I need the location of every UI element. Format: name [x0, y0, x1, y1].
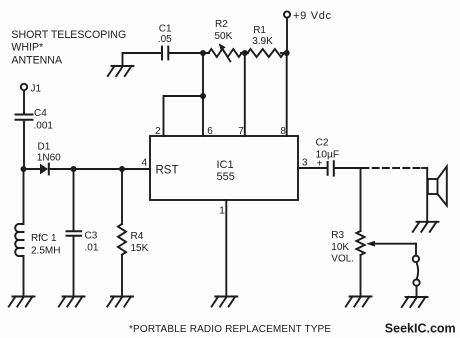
svg-text:.001: .001: [34, 121, 54, 132]
wire R1 to node F: [281, 52, 287, 54]
diode D1: [37, 141, 61, 174]
wire speaker drop: [426, 168, 428, 222]
wire C1 to node D: [169, 52, 210, 54]
svg-text:2: 2: [155, 126, 161, 137]
svg-text:R4: R4: [131, 231, 144, 242]
speaker SPK: [428, 166, 447, 205]
svg-text:7: 7: [238, 126, 244, 137]
potentiometer R3: [331, 230, 364, 265]
capacitor C4: [16, 108, 54, 132]
ground under C3: [59, 297, 85, 307]
switch S1: [413, 256, 420, 286]
wire node A to D1: [24, 168, 41, 170]
node D junction: [200, 50, 206, 56]
wire R2 to node E: [241, 52, 248, 54]
node F junction: [284, 50, 290, 56]
svg-text:2.5MH: 2.5MH: [31, 245, 60, 256]
node G junction: [200, 93, 206, 99]
svg-text:15K: 15K: [131, 243, 149, 254]
ground under pin 1: [212, 297, 238, 307]
wire J1 to C4: [23, 90, 25, 114]
svg-text:IC1: IC1: [217, 159, 234, 171]
node A junction: [21, 166, 27, 172]
wire C3 to ground: [73, 236, 75, 297]
svg-text:3.9K: 3.9K: [252, 36, 273, 47]
svg-text:RfC 1: RfC 1: [31, 233, 57, 244]
op-amp U1 IC1 555 box: [150, 136, 298, 200]
wire R3 riser: [360, 168, 362, 231]
wire C2 to R3 top: [334, 167, 361, 169]
svg-text:3: 3: [302, 157, 308, 168]
svg-text:D1: D1: [38, 141, 51, 152]
wire RFC1 to ground: [23, 256, 25, 297]
svg-text:C3: C3: [85, 230, 98, 241]
svg-text:C4: C4: [34, 108, 47, 119]
svg-text:VOL.: VOL.: [331, 254, 354, 265]
ground under R3: [346, 297, 372, 307]
svg-text:C1: C1: [159, 23, 172, 34]
svg-text:.01: .01: [85, 242, 99, 253]
label antenna text: [11, 29, 126, 66]
svg-text:C2: C2: [316, 137, 329, 148]
ground under switch: [402, 297, 428, 307]
wire C4 to node A: [23, 120, 25, 169]
wire R3 to ground: [360, 255, 362, 297]
wire pin 7 riser: [244, 53, 246, 136]
resistor R4: [118, 224, 149, 255]
terminal +9 Vdc: [284, 10, 332, 53]
wire pin 3 to C2: [298, 167, 327, 169]
svg-text:R2: R2: [215, 19, 228, 30]
ground near C1: [108, 66, 134, 76]
svg-text:SeekIC.com: SeekIC.com: [385, 321, 456, 335]
wire pin 8 riser: [286, 53, 288, 136]
wire switch to ground: [416, 286, 418, 297]
inductor RFC1: [15, 169, 60, 256]
resistor R1: [248, 25, 285, 57]
svg-text:SHORT TELESCOPING: SHORT TELESCOPING: [11, 29, 126, 41]
node C junction: [119, 166, 125, 172]
ground under RFC1: [9, 297, 35, 307]
svg-text:RST: RST: [156, 165, 179, 177]
svg-text:ANTENNA: ANTENNA: [11, 54, 63, 66]
dashed wire to speaker: [363, 167, 423, 169]
svg-text:R3: R3: [331, 230, 344, 241]
wire pin 6 riser: [202, 53, 204, 136]
wire node B to C3: [73, 169, 75, 231]
wire arrow corner to switch: [415, 244, 417, 256]
svg-text:10K: 10K: [331, 242, 349, 253]
wire R4 to ground: [121, 255, 123, 297]
ground under R4: [107, 297, 133, 307]
wire D1 to pin 4: [50, 168, 150, 170]
svg-text:+9 Vdc: +9 Vdc: [293, 10, 332, 22]
svg-text:4: 4: [142, 158, 148, 169]
svg-text:50K: 50K: [215, 31, 233, 42]
svg-text:1N60: 1N60: [37, 153, 61, 164]
node B junction: [71, 166, 77, 172]
svg-text:WHIP*: WHIP*: [11, 42, 43, 54]
svg-text:J1: J1: [31, 84, 42, 95]
wire node G to pin 2: [164, 96, 204, 136]
svg-text:555: 555: [217, 171, 235, 183]
svg-text:R1: R1: [253, 25, 266, 36]
svg-text:6: 6: [207, 126, 213, 137]
svg-text:+: +: [317, 159, 323, 170]
potentiometer R2: [209, 19, 242, 61]
wire pin 1 to ground: [225, 200, 227, 297]
ground under speaker: [413, 222, 439, 232]
node E junction: [242, 50, 248, 56]
connector J1: [21, 84, 42, 95]
svg-text:1: 1: [219, 205, 225, 216]
capacitor C2: [316, 137, 340, 175]
capacitor C3: [67, 230, 99, 253]
wire node C to R4: [121, 169, 123, 224]
svg-text:*PORTABLE RADIO REPLACEMENT TY: *PORTABLE RADIO REPLACEMENT TYPE: [129, 324, 331, 335]
wire ground to C1: [123, 53, 162, 66]
svg-text:8: 8: [280, 126, 286, 137]
wiper arrow of R3: [366, 241, 416, 247]
svg-text:.05: .05: [158, 34, 172, 45]
capacitor C1: [158, 23, 172, 59]
